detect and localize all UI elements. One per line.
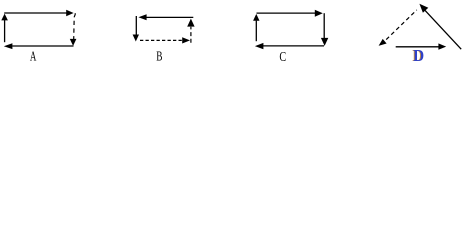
- figure D: bottom vector (solid horizontal, pointing right): [396, 43, 447, 49]
- figure D: right-side vector (solid diagonal, pointing up-left to apex): [419, 4, 461, 50]
- figure A: top vector (solid, pointing right): [4, 10, 73, 16]
- figure C: right vector (solid, pointing down): [321, 13, 328, 46]
- figure C: top vector (solid, pointing right): [257, 10, 323, 17]
- label D: [412, 46, 424, 65]
- figure C: left vector (solid, pointing up): [253, 14, 259, 41]
- figure B: left vector (solid, pointing down): [133, 16, 139, 42]
- svg-text:B: B: [156, 50, 162, 65]
- figure A: right vector (dashed, pointing down): [70, 13, 77, 46]
- figure B: bottom vector (dashed, pointing right): [140, 37, 190, 43]
- figure A: left vector (solid, pointing up): [1, 14, 8, 43]
- svg-text:D: D: [413, 46, 424, 65]
- figure B: top vector (solid, pointing left): [138, 14, 193, 20]
- figure B: right vector (dashed, pointing up): [187, 19, 194, 43]
- figure A: bottom vector (solid, pointing left): [4, 43, 74, 49]
- figure C: bottom vector (solid, pointing left): [255, 43, 324, 49]
- svg-text:A: A: [30, 50, 37, 65]
- svg-text:C: C: [279, 50, 286, 65]
- figure D: left-side vector (dashed diagonal, pointing down-left): [379, 10, 417, 46]
